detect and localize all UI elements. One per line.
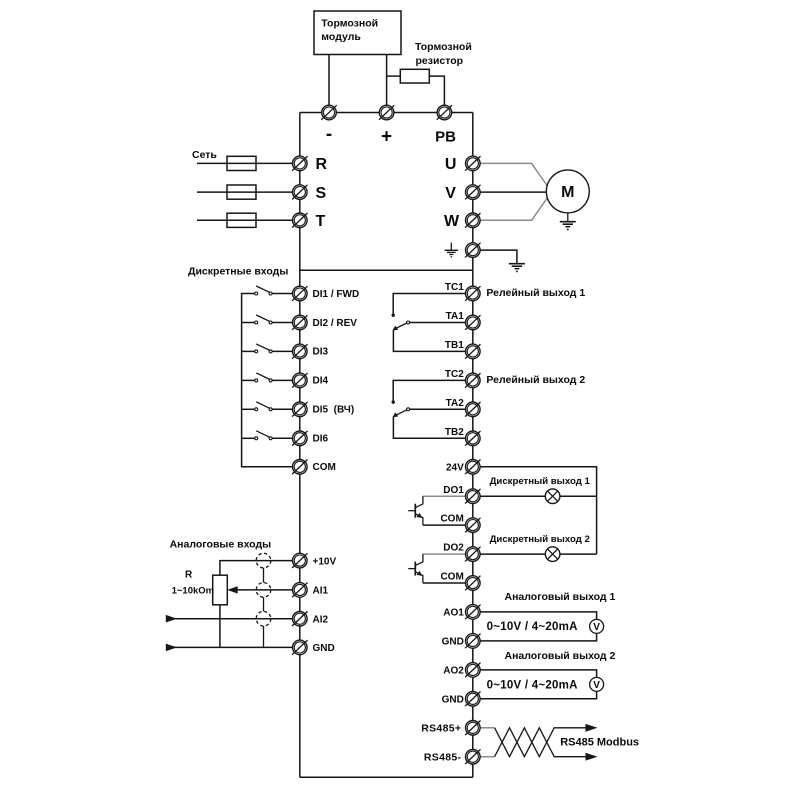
terminal GND (analog input) [292,640,307,655]
svg-text:DI4: DI4 [313,376,329,387]
PE ground symbol stem (left of PE terminal) [450,243,452,250]
shield connector dashed circle (AI2 row) [256,611,271,626]
terminal DO1 [465,489,480,504]
terminal PE [465,243,480,258]
svg-text:DI5 (ВЧ): DI5 (ВЧ) [313,405,355,416]
svg-text:COM: COM [440,514,463,525]
svg-text:+10V: +10V [313,556,337,567]
svg-text:Дискретный выход 1: Дискретный выход 1 [490,476,591,487]
terminal PB [437,105,452,120]
svg-text:W: W [444,213,460,230]
wire: AO2 measurement loop [480,670,597,699]
wire: W phase to motor (grey) [480,195,550,221]
svg-text:AO2: AO2 [443,666,464,677]
svg-text:AI2: AI2 [313,615,329,626]
svg-text:0~10V / 4~20mA: 0~10V / 4~20mA [487,621,578,633]
terminal DI4 [292,373,307,388]
lamp HL2 (discrete output 2) [545,547,560,562]
svg-text:COM: COM [313,462,336,473]
svg-text:TB2: TB2 [445,427,464,438]
terminal TA2 [465,402,480,417]
wire: mains phase T [197,219,294,221]
svg-text:RS485-: RS485- [424,751,462,763]
terminal DI2 [292,315,307,330]
wire: +10V to potentiometer [220,561,294,576]
svg-text:-: - [326,124,332,145]
svg-text:RS485+: RS485+ [421,722,461,734]
svg-text:Тормозной: Тормозной [415,41,472,53]
wire: DO1 lamp row [480,495,597,497]
wire: analog GND row with arrow [174,646,294,648]
svg-text:V: V [445,185,456,202]
inverter body: control section separator line [300,269,473,271]
fuse F3 [227,213,256,227]
wire: U phase to motor (grey) [480,163,550,189]
terminal COM (digital common) [292,460,307,475]
terminal AO2 [465,663,480,678]
fuse F2 [227,185,256,199]
svg-text:GND: GND [442,694,464,705]
terminal AO1 [465,605,480,620]
svg-text:Релейный выход 1: Релейный выход 1 [486,287,585,299]
svg-text:24V: 24V [446,462,464,473]
svg-text:TC2: TC2 [445,369,464,380]
svg-text:GND: GND [313,643,335,654]
terminal DI3 [292,344,307,359]
wire: DO2 lamp row [480,553,597,555]
motor ground stem [567,213,569,222]
svg-text:U: U [445,156,457,173]
wire: V phase to motor [480,191,550,193]
svg-text:TC1: TC1 [445,282,464,293]
svg-text:1~10kOm: 1~10kOm [172,585,215,596]
terminal R [292,156,307,171]
svg-text:R: R [316,156,328,173]
terminal U [465,156,480,171]
wire: RS485+ twisted pair upper [480,727,495,729]
terminal AI1 [292,583,307,598]
svg-text:Сеть: Сеть [192,149,217,161]
svg-text:TB1: TB1 [445,340,464,351]
svg-text:DO2: DO2 [443,543,464,554]
wire: PE terminal to earth [480,250,517,263]
svg-text:DI1 / FWD: DI1 / FWD [313,289,360,300]
relay K1: TB1 wire [393,330,465,352]
potentiometer R 1~10kOm [213,575,228,605]
transistor Q1 (DO1 open collector) [408,496,465,525]
wire: potentiometer bottom to GND row [219,605,221,648]
brake resistor R [400,69,429,83]
svg-text:TA2: TA2 [446,398,465,409]
svg-text:R: R [185,570,193,581]
switch SW3 (DI3) [242,344,294,353]
svg-text:RS485 Modbus: RS485 Modbus [560,737,639,749]
motor ground symbol [560,222,576,231]
terminal TC1 [465,286,480,301]
svg-text:DI6: DI6 [313,434,329,445]
svg-text:+: + [381,127,392,148]
voltmeter PV1 [590,619,604,633]
svg-text:Дискретный выход 2: Дискретный выход 2 [490,534,590,545]
earth ground symbol [509,264,525,273]
brake module box [314,11,401,55]
wire: 24V to discrete output loop [480,467,597,554]
svg-text:GND: GND [442,637,464,648]
svg-text:DI2 / REV: DI2 / REV [313,318,358,329]
inverter body: bottom bus [300,776,473,778]
svg-text:AO1: AO1 [443,608,464,619]
wire: brake module to plus terminal [386,55,388,107]
terminal COM (DO1 return) [465,518,480,533]
relay K2: TC2 wire and NO contact point [393,380,465,400]
terminal DI5 [292,402,307,417]
terminal +10V [292,553,307,568]
wire: AI1 wiper with arrow [237,589,295,591]
relay K1: contact arm [393,323,406,330]
terminal RS485+ [465,721,480,736]
transistor Q2 (DO2 open collector) [408,554,465,583]
wire: AO1 measurement loop [480,612,597,641]
terminal V [465,185,480,200]
terminal DO2 [465,547,480,562]
svg-text:T: T [316,213,326,230]
relay K2: TA2 wire and pivot circle [410,408,466,410]
terminal W [465,213,480,228]
motor M circle [546,170,589,213]
wire: mains phase S [197,191,294,193]
svg-text:TA1: TA1 [446,311,465,322]
relay K2: TB2 wire [393,417,465,439]
discrete inputs common bus wire [242,294,294,467]
svg-text:резистор: резистор [416,55,464,67]
svg-text:S: S [316,185,327,202]
switch SW1 (DI1) [255,286,294,295]
voltmeter PV2 [590,677,604,691]
terminal 24V [465,460,480,475]
switch SW5 (DI5) [242,402,294,411]
fuse F1 [227,156,256,170]
svg-text:Релейный выход 2: Релейный выход 2 [486,374,585,386]
inverter body: right vertical bus [472,113,474,778]
relay K2: contact arm [393,410,406,417]
svg-text:DO1: DO1 [443,485,464,496]
switch SW6 (DI6) [242,431,294,440]
wire: brake module to minus terminal [328,55,330,107]
wire: AI2 input with arrow [174,618,294,620]
terminal TA1 [465,315,480,330]
shield connector dashed circle (AI1 row) [256,583,271,598]
svg-text:M: M [561,184,574,201]
svg-text:0~10V / 4~20mA: 0~10V / 4~20mA [487,679,578,691]
svg-text:Тормозной: Тормозной [321,17,378,29]
terminal DI1 [292,286,307,301]
terminal DI6 [292,431,307,446]
terminal GND (AO1) [465,634,480,649]
inverter body: top bus [300,112,473,114]
svg-text:Аналоговые входы: Аналоговые входы [170,538,272,550]
terminal RS485- [465,749,480,764]
switch SW2 (DI2) [242,315,294,324]
svg-text:PB: PB [435,129,456,146]
terminal GND (AO2) [465,692,480,707]
svg-text:модуль: модуль [321,31,361,43]
svg-text:V: V [593,680,600,691]
inverter body: left vertical bus [299,113,301,778]
svg-text:Аналоговый выход 1: Аналоговый выход 1 [505,591,616,603]
wire: mains phase R [197,162,294,164]
svg-text:COM: COM [440,572,463,583]
PE ground symbol [445,250,458,257]
terminal T [292,213,307,228]
svg-text:V: V [593,622,600,633]
svg-text:Аналоговый выход 2: Аналоговый выход 2 [505,650,616,662]
shield connector dashed circle (+10V row) [256,553,271,568]
terminal plus [379,105,394,120]
terminal TB2 [465,431,480,446]
svg-text:Дискретные входы: Дискретные входы [188,266,288,278]
terminal TC2 [465,373,480,388]
svg-text:AI1: AI1 [313,586,329,597]
relay K1: TA1 wire and pivot circle [410,322,466,324]
terminal AI2 [292,611,307,626]
wire: plus riser to brake resistor [387,75,401,77]
lamp HL1 (discrete output 1) [545,489,560,504]
wire: brake resistor to PB terminal [429,76,444,106]
terminal minus [321,105,336,120]
relay K1: TC1 wire and NO contact point [393,294,465,314]
switch SW4 (DI4) [242,373,294,382]
wire: RS485- twisted pair lower [480,756,495,758]
terminal TB1 [465,344,480,359]
svg-text:DI3: DI3 [313,347,329,358]
shield link verticals between dashed circles [263,568,265,583]
terminal S [292,185,307,200]
terminal COM (DO2 return) [465,576,480,591]
